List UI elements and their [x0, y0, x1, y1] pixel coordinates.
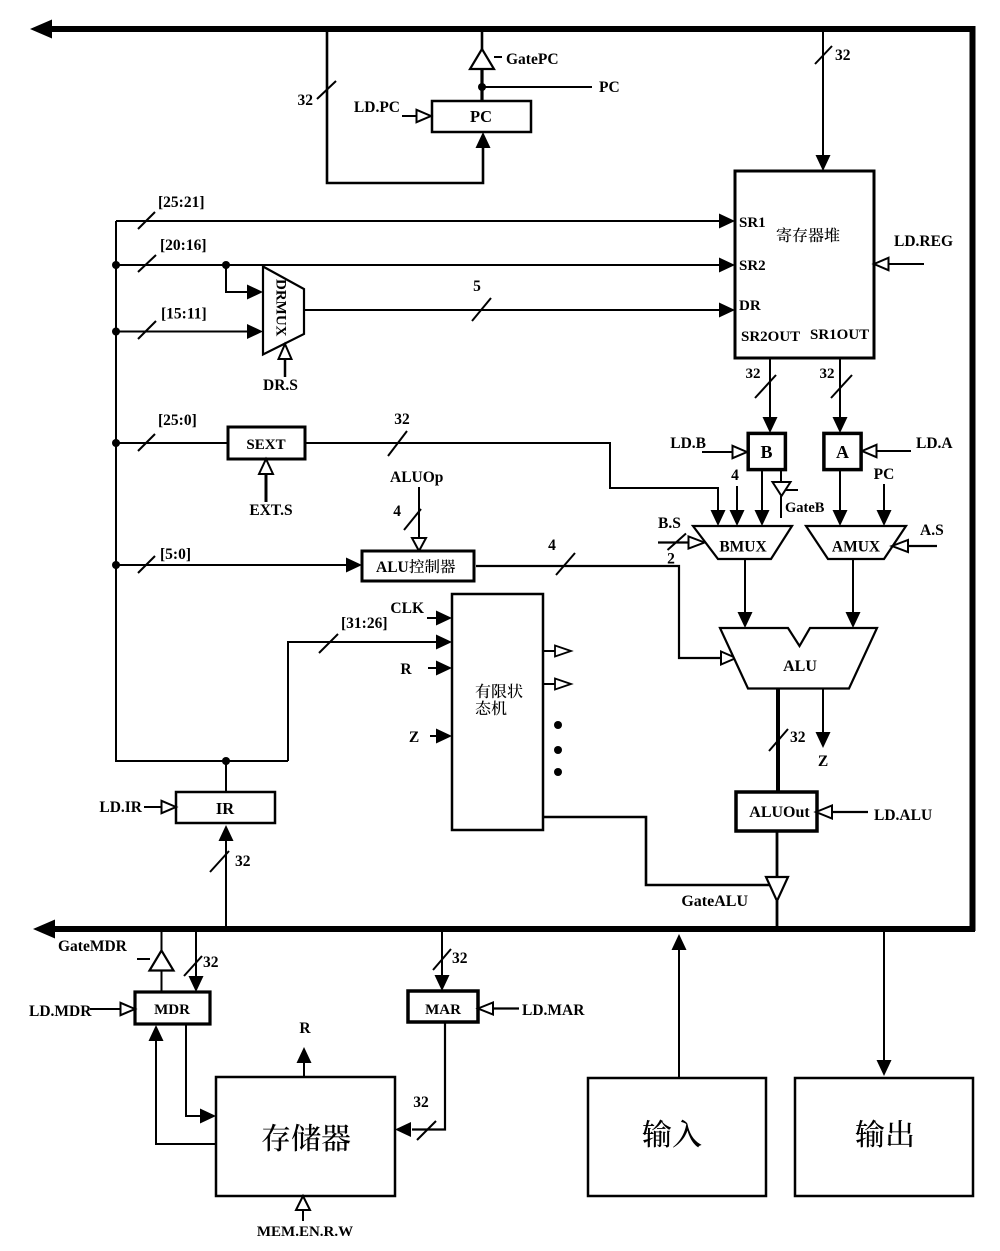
svg-text:[31:26]: [31:26]	[341, 615, 388, 632]
svg-text:[15:11]: [15:11]	[161, 306, 207, 323]
label: width 5 slash on DR wire	[472, 278, 491, 321]
bus: top system bus (thick)	[30, 20, 975, 39]
wire: ALU controller output to ALU (4)	[476, 566, 736, 665]
mux DRMUX	[263, 267, 304, 355]
svg-text:LD.IR: LD.IR	[99, 799, 142, 816]
svg-text:LD.PC: LD.PC	[354, 99, 400, 116]
svg-text:ALUOp: ALUOp	[390, 469, 443, 486]
label: [20:16] with slash	[138, 237, 207, 272]
svg-text:Z: Z	[818, 753, 828, 770]
node: PC output junction dot	[478, 83, 486, 91]
svg-text:SR1OUT: SR1OUT	[810, 327, 869, 343]
wire: [20:16] branch into DRMUX	[226, 265, 263, 300]
svg-text:32: 32	[298, 92, 314, 109]
svg-text:EXT.S: EXT.S	[249, 502, 292, 519]
control LD.MAR	[478, 1002, 585, 1019]
svg-text:PC: PC	[874, 466, 895, 483]
svg-text:B.S: B.S	[658, 515, 681, 532]
svg-text:4: 4	[393, 503, 401, 520]
label: width 4 slash on ALUOp	[393, 503, 421, 530]
svg-text:32: 32	[235, 853, 251, 870]
svg-text:MDR: MDR	[154, 1002, 190, 1018]
label: 32 slash on IR input	[210, 851, 251, 872]
label GateMDR	[58, 938, 128, 955]
memory 存储器	[216, 1077, 395, 1196]
register IR	[176, 792, 275, 823]
wire: ALU Z flag output	[816, 689, 831, 770]
label: [15:11] with slash	[138, 306, 207, 340]
svg-text:ALU: ALU	[376, 559, 409, 576]
svg-text:SEXT: SEXT	[246, 437, 285, 453]
label: net PC	[599, 79, 620, 96]
label GateB	[785, 500, 825, 516]
svg-text:4: 4	[731, 467, 739, 484]
svg-text:LD.ALU: LD.ALU	[874, 807, 932, 824]
svg-text:32: 32	[452, 950, 468, 967]
label: [5:0] with slash	[138, 546, 191, 573]
svg-text:GateB: GateB	[785, 500, 825, 516]
wire: ALU result to ALUOut (32)	[776, 688, 780, 792]
control Z into FSM	[409, 729, 452, 747]
svg-text:DRMUX: DRMUX	[273, 279, 289, 337]
svg-text:PC: PC	[470, 107, 492, 126]
wire: rail branch down to IR	[225, 761, 227, 792]
svg-text:32: 32	[746, 366, 761, 382]
wire: IR[5:0] to ALU controller	[112, 558, 362, 573]
wire: memory R status output	[297, 1020, 312, 1077]
label GatePC	[506, 51, 559, 68]
control LD.B	[670, 435, 747, 458]
svg-text:32: 32	[820, 366, 835, 382]
svg-text:AMUX: AMUX	[832, 539, 881, 556]
svg-text:[25:21]: [25:21]	[158, 194, 205, 211]
wire: A output to AMUX	[833, 471, 848, 526]
tri-state gate GateMDR	[137, 932, 174, 993]
register MAR	[408, 991, 478, 1022]
wire: constant 4 input to BMUX	[730, 467, 745, 526]
svg-text:DR: DR	[739, 298, 761, 314]
wire: SEXT output to BMUX (32)	[305, 443, 726, 526]
control B.S into BMUX	[658, 515, 705, 550]
fsm more-outputs dots	[554, 721, 562, 776]
svg-text:LD.REG: LD.REG	[894, 233, 953, 250]
svg-text:R: R	[400, 661, 412, 678]
label: [25:21] with slash	[138, 194, 205, 229]
svg-text:SR2OUT: SR2OUT	[741, 329, 800, 345]
label: 32 slash on MAR input	[433, 949, 468, 970]
alu controller ALU控制器	[362, 551, 474, 581]
svg-text:R: R	[299, 1020, 311, 1037]
control DR.S	[263, 344, 298, 394]
wire: memory to MDR	[149, 1025, 217, 1144]
wire: top bus down-around to PC input	[327, 31, 491, 183]
label: width 4 slash on ALU controller output	[548, 537, 575, 575]
svg-text:MEM.EN.R.W: MEM.EN.R.W	[257, 1224, 353, 1240]
wire: PC input to AMUX	[874, 466, 895, 526]
svg-text:32: 32	[203, 954, 219, 971]
label: 32 slash on SR1OUT wire	[820, 366, 853, 398]
svg-text:ALUOut: ALUOut	[749, 804, 810, 821]
wire: top bus to register file write port (32)	[816, 31, 831, 171]
control LD.REG	[874, 233, 953, 270]
svg-text:[20:16]: [20:16]	[160, 237, 207, 254]
wire: MDR to memory	[186, 1024, 216, 1124]
wire: bottom bus to MDR (32)	[189, 932, 204, 992]
svg-text:IR: IR	[216, 799, 235, 818]
wire: SR1OUT to register A (32)	[833, 358, 848, 433]
control MEM.EN.R.W	[257, 1196, 353, 1240]
fsm output signal 1	[543, 646, 571, 657]
label: [25:0] with slash	[138, 412, 197, 451]
mux AMUX	[806, 526, 906, 559]
control LD.ALU	[816, 806, 932, 825]
label: [31:26] with slash	[319, 615, 388, 653]
wire: IR[25:21] to SR1	[116, 214, 735, 229]
label: 32 slash on ALU result	[769, 729, 806, 751]
svg-text:4: 4	[548, 537, 556, 554]
svg-text:SR1: SR1	[739, 215, 766, 231]
label: width 32 slash on register-file input	[815, 46, 851, 64]
wire: IR[15:11] into DRMUX	[112, 324, 263, 339]
wire: IR[25:0] to SEXT	[112, 439, 228, 447]
register A	[824, 433, 861, 469]
wire: DRMUX output to DR port (5)	[305, 303, 735, 318]
wire: SR2OUT to register B (32)	[763, 358, 778, 433]
control ALUOp into ALU controller	[390, 469, 443, 551]
register file 寄存器堆	[735, 171, 874, 358]
label: 32 slash on SR2OUT wire	[746, 366, 777, 398]
control LD.PC	[354, 99, 431, 122]
register PC	[432, 101, 531, 132]
svg-text:GateALU: GateALU	[681, 893, 748, 910]
wire: BMUX output to ALU	[738, 559, 753, 628]
register B	[748, 433, 785, 469]
wire: FSM control to GateALU	[543, 817, 770, 885]
alu ALU	[720, 628, 877, 689]
svg-text:32: 32	[394, 411, 410, 428]
control R into FSM	[400, 661, 452, 679]
label: width 32 slash on PC loop wire	[298, 81, 337, 109]
label: width 2 on B.S	[667, 551, 675, 568]
bus: right vertical bus (thick)	[970, 26, 976, 931]
svg-text:A.S: A.S	[920, 522, 944, 539]
label: 32 slash on MAR-memory wire	[413, 1094, 436, 1140]
fsm 有限状态机	[452, 594, 543, 830]
svg-text:[25:0]: [25:0]	[158, 412, 197, 429]
svg-text:A: A	[836, 442, 849, 462]
svg-text:ALU: ALU	[783, 658, 817, 675]
extender SEXT	[228, 427, 305, 459]
wire: input device to bottom bus	[672, 934, 687, 1078]
wire: B output to BMUX	[755, 471, 770, 526]
wire: AMUX output to ALU	[846, 559, 861, 628]
svg-text:2: 2	[667, 551, 675, 568]
label: 32 slash on MDR input	[184, 954, 219, 976]
svg-text:LD.MAR: LD.MAR	[522, 1002, 585, 1019]
fsm output signal 2	[543, 679, 571, 690]
svg-text:LD.B: LD.B	[670, 435, 706, 452]
control LD.MDR	[29, 1003, 135, 1020]
register ALUOut	[736, 792, 817, 831]
svg-text:LD.MDR: LD.MDR	[29, 1003, 92, 1020]
svg-text:32: 32	[790, 729, 806, 746]
wire: bottom bus to MAR (32)	[435, 932, 450, 991]
wire: bottom bus up to IR (32)	[219, 825, 234, 926]
svg-text:GatePC: GatePC	[506, 51, 559, 68]
svg-text:5: 5	[473, 278, 481, 295]
wire: IR[20:16] to SR2	[112, 258, 735, 273]
wire: MAR to memory (32)	[395, 1022, 445, 1137]
control LD.IR	[99, 799, 176, 816]
tri-state gate GateALU	[766, 831, 788, 926]
mux BMUX	[693, 526, 792, 559]
svg-text:Z: Z	[409, 729, 419, 746]
svg-text:DR.S: DR.S	[263, 377, 298, 394]
svg-text:PC: PC	[599, 79, 620, 96]
svg-text:B: B	[760, 442, 772, 462]
wire: instruction-field left rail	[116, 221, 288, 765]
svg-text:CLK: CLK	[390, 600, 424, 617]
control EXT.S	[249, 459, 292, 519]
wire: IR[31:26] to FSM	[288, 635, 452, 762]
wire: bottom bus to output device	[877, 932, 892, 1076]
svg-text:32: 32	[835, 47, 851, 64]
io output device 输出	[795, 1078, 973, 1196]
svg-text:[5:0]: [5:0]	[160, 546, 191, 563]
svg-text:GateMDR: GateMDR	[58, 938, 128, 955]
label: 32 slash on SEXT output	[388, 411, 410, 456]
tri-state gate GateB	[773, 471, 799, 518]
bus: bottom system bus (thick)	[33, 920, 975, 939]
svg-text:MAR: MAR	[425, 1002, 461, 1018]
control A.S into AMUX	[892, 522, 944, 552]
svg-text:32: 32	[413, 1094, 429, 1111]
register MDR	[135, 992, 210, 1024]
control LD.A	[862, 435, 953, 457]
wire: PC output tap to the right	[482, 86, 592, 88]
tri-state gate GatePC	[470, 31, 502, 101]
label GateALU	[681, 893, 748, 910]
svg-text:LD.A: LD.A	[916, 435, 953, 452]
io input device 输入	[588, 1078, 766, 1196]
control CLK into FSM	[390, 600, 452, 626]
svg-text:SR2: SR2	[739, 258, 766, 274]
svg-text:BMUX: BMUX	[719, 539, 767, 556]
